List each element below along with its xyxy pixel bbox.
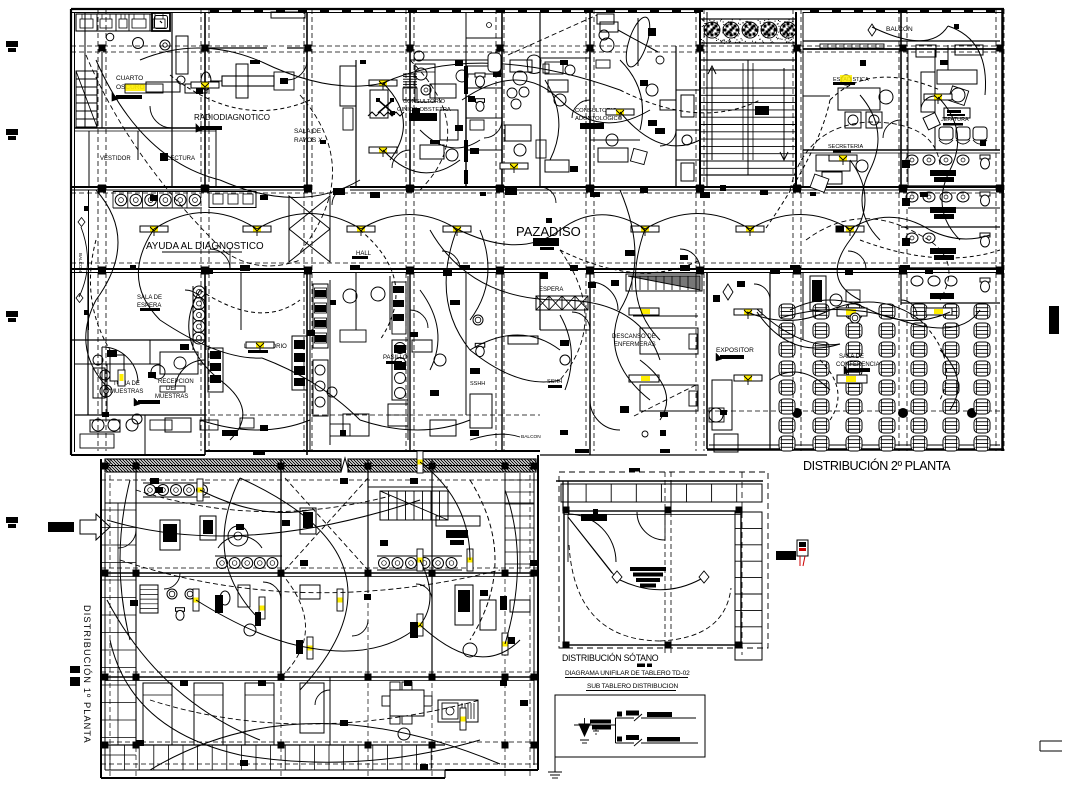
svg-text:RADIODIAGNOTICO: RADIODIAGNOTICO (194, 113, 270, 122)
circles under bench (106, 33, 114, 41)
plan1 dashed arcs (136, 490, 390, 512)
bottom middle room rects (430, 420, 456, 436)
black wall segments x466 (464, 66, 468, 94)
svg-text:ENFERMERAS: ENFERMERAS (614, 342, 656, 348)
wc cell fixtures (488, 53, 501, 72)
zoneA fillers 540-590 (548, 80, 568, 92)
svg-text:SALA DE: SALA DE (137, 295, 162, 301)
plan1 dashed grid (101, 479, 538, 481)
svg-text:VESTIDOR: VESTIDOR (100, 156, 131, 162)
left margin tick glyphs (6, 41, 18, 47)
plan1 top room fixtures (160, 520, 180, 550)
single line diagram box (555, 695, 705, 757)
adonto desk (598, 148, 628, 162)
below-corridor door swings (185, 290, 205, 310)
basement dashed outline (559, 472, 768, 648)
corridor lights (140, 226, 168, 236)
svg-text:PASILLO: PASILLO (383, 355, 408, 361)
svg-text:EXPOSITOR: EXPOSITOR (716, 347, 754, 354)
zoneA 540-590 partition (540, 57, 590, 59)
balcony arc wires (872, 26, 948, 41)
jefatura top cabinet (916, 45, 936, 57)
lab room benches (309, 272, 311, 451)
secretaria 3 chairs (939, 127, 953, 140)
lab dark benches (315, 290, 326, 297)
dark room tall equipment (176, 36, 188, 74)
cuarto oscuro left wall (101, 52, 103, 128)
plan1 inner horizontal walls (105, 502, 534, 504)
conference chairs block (779, 304, 795, 319)
dental chair (621, 14, 654, 69)
balcony right band (803, 40, 1000, 42)
zoneA door swings (150, 106, 172, 128)
wall below cuarto oscuro (75, 127, 216, 129)
TD-02 wall unit symbol (797, 540, 808, 556)
basement corner line to diamond (568, 517, 612, 573)
plan1 more marks (150, 478, 159, 484)
misc black marks zone (333, 188, 345, 195)
svg-text:BALCON: BALCON (78, 253, 83, 272)
corridor top wall (71, 186, 307, 188)
svg-text:CUARTO: CUARTO (116, 75, 143, 82)
svg-text:LECTURA: LECTURA (167, 156, 195, 162)
zoneA 410-502 bath partitions (466, 87, 502, 89)
extra small black marks 2 (150, 195, 158, 201)
basement dashed big arc (569, 545, 660, 641)
eco room fixtures (370, 90, 388, 118)
plan1 stairs top right (380, 491, 448, 520)
ayuda sink row below corridor top wall (113, 191, 202, 193)
expositor room (706, 272, 708, 449)
planter stipple (723, 21, 724, 22)
svg-text:JEFATURA: JEFATURA (941, 117, 969, 123)
diagram incoming line (574, 724, 615, 726)
espera-sshh strip fillers (560, 340, 569, 346)
lab wall 356 (355, 272, 357, 330)
diagram ground below box (554, 757, 556, 772)
svg-text:MUESTRAS: MUESTRAS (155, 394, 188, 400)
extra arcs zoneB mid (470, 335, 560, 350)
plan1 lights (193, 589, 199, 611)
basement diamonds + wires (612, 571, 622, 583)
lab bench top-left band (76, 14, 152, 31)
extra corridor arcs right (560, 215, 645, 230)
plan1 right tile strip (505, 479, 534, 481)
balcony-left wall (84, 12, 86, 128)
left wing below corridor walls (87, 272, 89, 415)
diagram branch 1 (616, 717, 635, 719)
horizontal grid dashed lines (71, 45, 1004, 47)
zigzag resistor gineco (368, 112, 404, 116)
plan1 outer walls (100, 459, 102, 778)
plan1 beds bottom left (143, 683, 172, 745)
svg-text:SSHH: SSHH (547, 379, 562, 385)
vertical grid dashed lines (97, 9, 99, 451)
muestras vertical light (118, 370, 125, 386)
basement door arcs (568, 514, 616, 562)
svg-text:BALCON: BALCON (886, 26, 913, 33)
svg-text:SECRETERIA: SECRETERIA (828, 144, 863, 150)
stair top-left (76, 71, 97, 127)
corridor double door bowties (289, 196, 330, 229)
plan1 switch blobs (215, 595, 223, 613)
blinds shelf (403, 73, 417, 75)
planter with plants (700, 19, 796, 43)
interior vertical walls zone A (171, 12, 173, 128)
top wall tick marks (210, 9, 219, 12)
svg-text:SUB TABLERO DISTRIBUCION: SUB TABLERO DISTRIBUCION (587, 683, 678, 690)
diagram incoming fuse symbol (579, 724, 590, 736)
xray small equip (340, 66, 356, 106)
svg-text:DISTRIBUCIÓN 2º PLANTA: DISTRIBUCIÓN 2º PLANTA (803, 458, 951, 473)
svg-text:TOMA DE: TOMA DE (113, 381, 140, 387)
balcon strip left (88, 190, 90, 330)
zoneA exam tables 410-466 (415, 64, 435, 102)
zoneA fillers 640-700 (646, 84, 658, 96)
main stair block center (700, 60, 796, 175)
corridor bottom wall (71, 268, 307, 270)
svg-text:MUESTRAS: MUESTRAS (110, 389, 143, 395)
basement top bar + under-title marks (629, 468, 640, 472)
plan1 entrance arrow left (48, 522, 74, 532)
svg-text:DISTRIBUCIÓN SÓTANO: DISTRIBUCIÓN SÓTANO (562, 653, 659, 663)
extra wires conference (790, 300, 870, 310)
wiring arcs corridor to rooms (138, 229, 160, 320)
ramp stair dark wedge (628, 276, 700, 290)
svg-text:BALCON: BALCON (521, 434, 541, 440)
plan1 left tile strip (101, 509, 136, 511)
sala espera bottom door arc (102, 347, 138, 383)
basement grid dashed (664, 472, 666, 655)
plan1 dining table (390, 690, 424, 716)
corridor columns (98, 185, 106, 193)
plan1 right room fixtures (455, 585, 473, 625)
stair side cells (676, 89, 700, 91)
zoneA 590-700 partitions (590, 139, 640, 141)
svg-text:SALA DE: SALA DE (839, 354, 864, 360)
plan1 sinks row top (145, 485, 156, 496)
sshh zone fillers (412, 340, 432, 352)
right wing below corridor bathrooms (900, 272, 902, 305)
corridor arcs (154, 213, 257, 230)
ayuda counter right of sinks (209, 192, 256, 208)
radiodiag north window (271, 12, 305, 18)
jefatura light (924, 94, 952, 104)
bottom band extra furniture (92, 419, 104, 431)
extra wires right wing lower (940, 350, 958, 410)
zoneA fillers 420-500 (420, 145, 444, 159)
wiring arcs zone A (140, 48, 262, 62)
lab lower fixtures (392, 340, 408, 400)
extra dashed long curves topleft (86, 55, 225, 252)
plan1 sinks row mid-left (217, 558, 228, 569)
transformer X symbol gineco (378, 100, 393, 113)
basement columns (563, 507, 570, 514)
xray table (222, 76, 274, 86)
plan1 bottom tile strip (109, 745, 111, 770)
svg-text:DE: DE (166, 386, 174, 392)
basement top cell band (556, 480, 763, 482)
bathroom rows right wing (906, 155, 918, 165)
svg-text:SALA DE: SALA DE (294, 128, 322, 135)
bath partition marks (902, 160, 910, 168)
svg-text:DIAGRAMA UNIFILAR DE TABLERO T: DIAGRAMA UNIFILAR DE TABLERO TD-02 (565, 670, 690, 677)
zoneA lights (369, 80, 397, 90)
diagram branch 2 (616, 742, 635, 744)
plan1 hatched top wall band (105, 459, 341, 472)
outer walls 2nd floor plan (71, 8, 1004, 10)
stub marks below top plan bottom wall (253, 451, 265, 455)
svg-text:RAYOS X: RAYOS X (294, 137, 323, 144)
basement steps pyramid (630, 567, 666, 571)
svg-text:DISTRIBUCIÓN 1º PLANTA: DISTRIBUCIÓN 1º PLANTA (82, 605, 92, 744)
plan1 kitchen bottom right (438, 700, 478, 722)
sala espera circles column (193, 286, 205, 298)
radiodiag top wall y48 (207, 47, 267, 49)
plan1 big X dashed room (285, 478, 368, 570)
extra plan1 loops (110, 640, 480, 762)
gap arrow in band (341, 458, 349, 472)
recepcion chair + counter (151, 365, 165, 379)
extra solid S curves (430, 230, 660, 360)
plan1 sinks row mid-right (379, 558, 390, 569)
sink square top-left (152, 13, 170, 31)
basement black blob (581, 514, 607, 521)
muestras room dark marks (107, 350, 117, 357)
conference lights (837, 308, 867, 316)
toma muestras furniture (93, 368, 105, 398)
far right top fixtures (597, 14, 614, 24)
basement inner box (564, 511, 741, 645)
plan1 mid fixtures (140, 585, 158, 613)
toma muestras circles (100, 370, 110, 380)
right mid room (802, 272, 804, 340)
dashed diagonal 502-590 (508, 15, 597, 55)
consultorio mid fixtures (505, 125, 531, 141)
grid columns row1 (99, 45, 106, 52)
right small stub below plan (1040, 740, 1062, 742)
extra room furniture right of rayos x (430, 84, 456, 98)
basement right stair strip (735, 512, 762, 660)
lab room right bench dark cells (292, 336, 307, 390)
corridor door swings (210, 249, 230, 269)
svg-text:AYUDA AL DIAGNOSTICO: AYUDA AL DIAGNOSTICO (146, 241, 264, 252)
diagram bus vertical (615, 718, 617, 743)
right wing rooms walls (803, 149, 1000, 151)
estadistica desk cluster (838, 88, 880, 110)
svg-text:ESPERA: ESPERA (539, 287, 563, 293)
conference dashed row columns (792, 408, 802, 418)
plan1 wiring arcs (107, 500, 420, 536)
lab room 205-307 left bench dark cells (208, 348, 223, 392)
wall x102 lower (101, 347, 103, 415)
plan1 door swings (118, 530, 136, 548)
cell partitions x466-502 (466, 37, 502, 39)
jefatura office (921, 72, 935, 112)
plan1 inner vertical walls (135, 459, 137, 745)
sshh room (409, 272, 411, 451)
dark room furniture (146, 82, 180, 92)
svg-text:CONFERENCIA: CONFERENCIA (836, 362, 880, 368)
room 502-590 chair+misc (527, 55, 541, 74)
svg-text:SSHH: SSHH (470, 381, 485, 387)
extra dashed curves right wing (790, 122, 940, 190)
plan1 columns (102, 463, 109, 470)
